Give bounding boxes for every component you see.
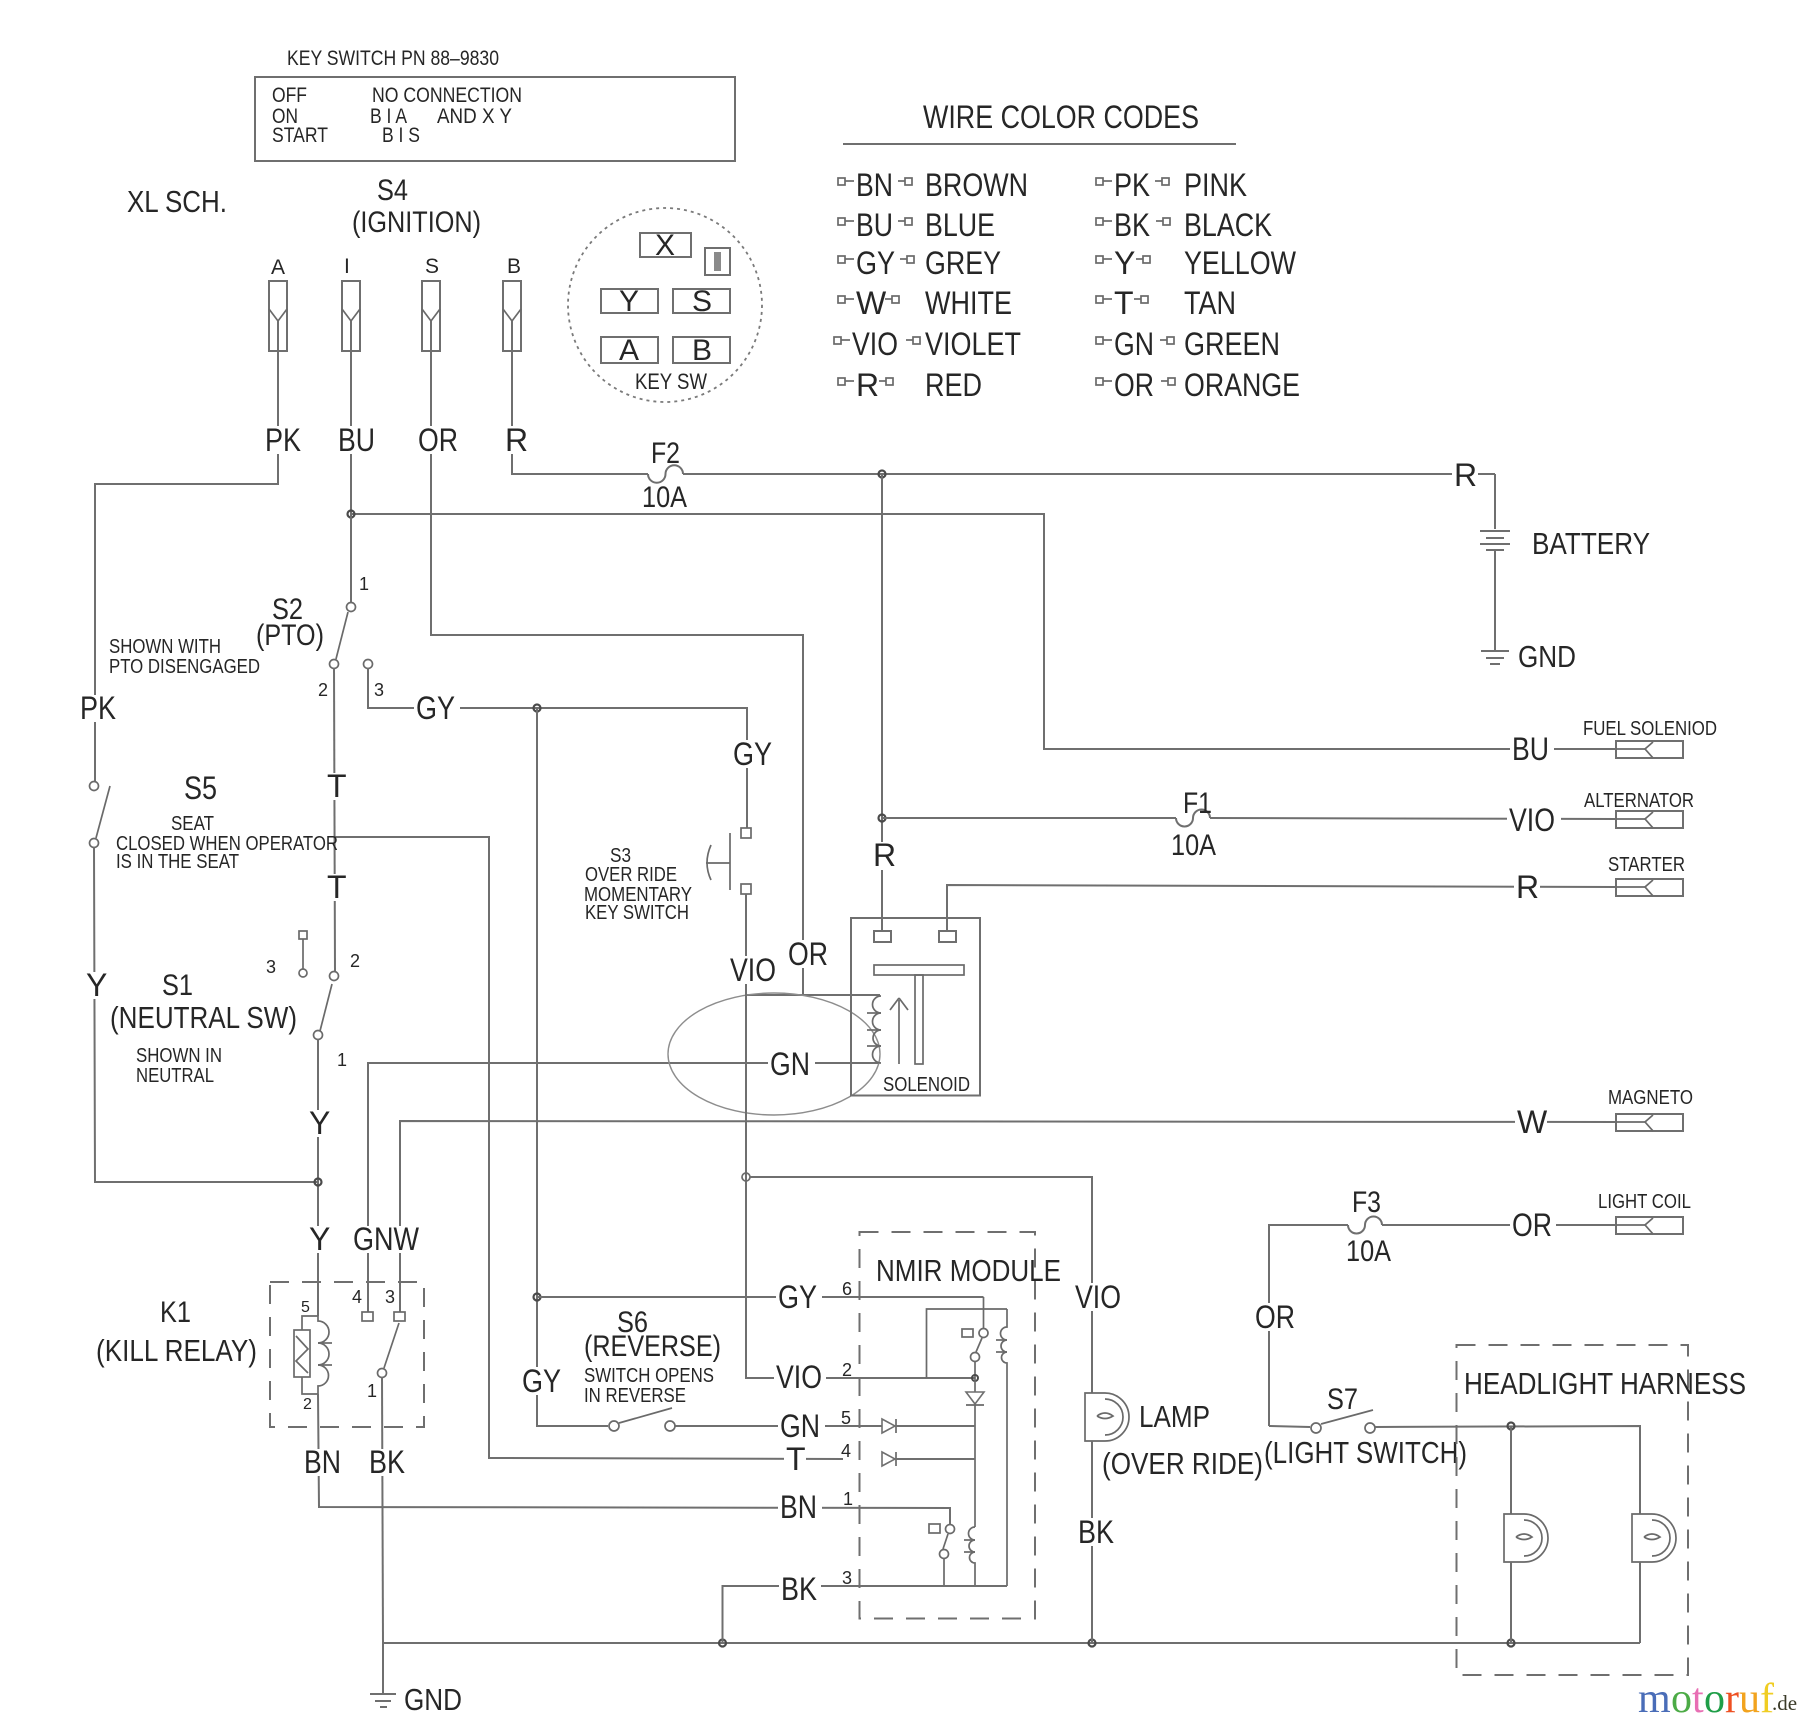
- svg-text:BLUE: BLUE: [925, 207, 995, 243]
- connector pin S of S4: [422, 255, 440, 351]
- wire to fuse F1: [882, 817, 1176, 819]
- svg-text:(NEUTRAL SW): (NEUTRAL SW): [110, 1000, 297, 1035]
- svg-text:BN: BN: [780, 1489, 817, 1525]
- svg-text:BU: BU: [1512, 731, 1549, 767]
- svg-text:GY: GY: [733, 736, 772, 772]
- wire label BK NMIR pin3: [779, 1571, 821, 1607]
- connector terminal light coil: [1616, 1217, 1683, 1234]
- switch S6 arm: [619, 1408, 672, 1423]
- connector terminal fuel solenoid: [1616, 741, 1683, 758]
- svg-text:WIRE COLOR CODES: WIRE COLOR CODES: [923, 99, 1199, 135]
- svg-text:NEUTRAL: NEUTRAL: [136, 1065, 214, 1087]
- legend row VIO VIOLET: [834, 326, 1021, 362]
- svg-text:S4: S4: [377, 174, 408, 207]
- wire T NMIR pin 4 segment: [896, 1458, 975, 1460]
- node VIO lamp junction: [742, 1173, 750, 1181]
- svg-text:LIGHT COIL: LIGHT COIL: [1598, 1191, 1691, 1213]
- svg-text:OFF: OFF: [272, 84, 307, 107]
- wire label Y at K1: [308, 1221, 330, 1257]
- svg-text:o: o: [1671, 1676, 1692, 1722]
- wire label BN at K1: [303, 1444, 345, 1480]
- wire label R top: [503, 422, 528, 458]
- legend row W WHITE: [838, 285, 1012, 321]
- wire label BK at K1: [368, 1444, 410, 1480]
- relay K1 switch arm: [384, 1323, 399, 1368]
- svg-text:A: A: [271, 256, 285, 279]
- switch S7 arm: [1321, 1410, 1373, 1424]
- NMIR upper relay arm: [976, 1338, 982, 1352]
- relay K1 switch pin labels: [352, 1287, 395, 1401]
- svg-text:(IGNITION): (IGNITION): [352, 206, 481, 239]
- wire label T NMIR pin4: [784, 1441, 806, 1477]
- svg-text:Y: Y: [309, 1221, 330, 1257]
- connector pin I of S4: [342, 255, 360, 351]
- svg-text:GY: GY: [416, 690, 455, 726]
- switch S2 labels: [256, 574, 384, 700]
- NMIR lower coil ticks: [964, 1540, 975, 1552]
- NMIR upper coil ticks: [996, 1340, 1007, 1352]
- wire left headlight to bus: [1510, 1562, 1512, 1643]
- switch S1 pin 3 terminal: [299, 931, 307, 977]
- svg-text:BN: BN: [304, 1444, 341, 1480]
- svg-text:XL SCH.: XL SCH.: [127, 184, 227, 219]
- svg-text:GREY: GREY: [925, 245, 1001, 281]
- wire W magneto to kill relay: [400, 1121, 1616, 1312]
- switch S6 right contact: [665, 1421, 675, 1431]
- svg-text:OR: OR: [788, 936, 828, 972]
- svg-text:VIO: VIO: [776, 1359, 822, 1395]
- wire label R starter: [1514, 869, 1540, 905]
- solenoid terminal 2: [939, 931, 956, 942]
- wire OR to light coil: [1382, 1224, 1616, 1226]
- svg-text:S: S: [425, 255, 439, 278]
- svg-text:IS IN THE SEAT: IS IN THE SEAT: [116, 851, 239, 873]
- legend row R RED: [838, 367, 982, 403]
- switch S7 labels: [1264, 1383, 1467, 1470]
- wire VIO NMIR pin 2: [859, 1377, 975, 1379]
- wire label T lower: [326, 869, 347, 905]
- legend row BU BLUE: [838, 207, 995, 243]
- solenoid box: [851, 918, 980, 1096]
- NMIR lower relay moving contact: [946, 1525, 955, 1534]
- wire right headlight to bus: [1639, 1562, 1641, 1643]
- solenoid coil: [873, 996, 882, 1063]
- switch S6 left contact: [609, 1421, 619, 1431]
- key switch terminal B: [673, 337, 730, 363]
- wire BK NMIR pin 3: [723, 1586, 1008, 1643]
- svg-text:X: X: [655, 229, 675, 262]
- svg-text:S5: S5: [184, 770, 217, 806]
- lamp over ride symbol: [1085, 1393, 1129, 1441]
- svg-text:VIO: VIO: [1509, 802, 1555, 838]
- svg-text:GN: GN: [1114, 326, 1154, 362]
- key switch PN table box: [255, 77, 735, 161]
- svg-text:NMIR MODULE: NMIR MODULE: [876, 1253, 1061, 1288]
- relay K1 moving contact: [378, 1369, 387, 1378]
- svg-text:1: 1: [337, 1050, 347, 1070]
- svg-text:T: T: [327, 768, 347, 804]
- wire label OR F3: [1253, 1299, 1299, 1335]
- svg-text:F1: F1: [1183, 787, 1212, 820]
- svg-text:1: 1: [359, 574, 369, 594]
- NMIR internal top link: [927, 1309, 1008, 1378]
- wire label W magneto: [1515, 1104, 1548, 1140]
- wire label OR light coil: [1510, 1207, 1556, 1243]
- svg-text:OR: OR: [418, 422, 458, 458]
- wire BU from S4 pin I to fuel solenoid: [351, 321, 1616, 749]
- diode at NMIR pin 5: [882, 1419, 896, 1433]
- node headlight junction: [1508, 1423, 1515, 1430]
- wire T from S2 pin 2 to S1 pin 2: [334, 668, 335, 972]
- svg-text:IN REVERSE: IN REVERSE: [584, 1385, 686, 1407]
- svg-text:S1: S1: [162, 969, 193, 1002]
- svg-text:5: 5: [301, 1299, 310, 1316]
- relay K1 pin 4 terminal: [362, 1312, 373, 1321]
- key switch terminal I: [705, 248, 730, 275]
- NMIR lower relay pivot lead: [943, 1559, 945, 1586]
- svg-text:GREEN: GREEN: [1184, 326, 1280, 362]
- svg-text:R: R: [505, 422, 528, 458]
- NMIR lower relay pivot contact: [940, 1550, 949, 1559]
- headlight harness box: [1457, 1345, 1689, 1675]
- svg-text:10A: 10A: [642, 481, 687, 514]
- svg-text:SHOWN WITH: SHOWN WITH: [109, 636, 221, 658]
- ground bus: [383, 1642, 1640, 1644]
- legend row GN GREEN: [1096, 326, 1280, 362]
- switch S5 labels: [116, 770, 338, 873]
- relay K1 labels: [96, 1296, 257, 1368]
- svg-text:PK: PK: [1114, 167, 1150, 203]
- NMIR lower coil: [969, 1527, 976, 1586]
- battery symbol: [1480, 474, 1510, 650]
- node F1 tap junction: [879, 815, 886, 822]
- node ground bus headlight junction: [1508, 1640, 1515, 1647]
- svg-text:PK: PK: [80, 690, 116, 726]
- svg-text:BK: BK: [1078, 1514, 1114, 1550]
- wire BK lamp to ground: [1091, 1441, 1093, 1643]
- wire label GY NMIR pin6: [776, 1279, 822, 1315]
- legend row PK PINK: [1096, 167, 1247, 203]
- svg-text:SEAT: SEAT: [171, 813, 214, 835]
- wire R after F2: [683, 473, 1495, 475]
- wire label Y mid: [308, 1105, 330, 1141]
- svg-text:BU: BU: [338, 422, 375, 458]
- svg-text:Y: Y: [619, 285, 639, 318]
- switch S6 labels: [584, 1306, 721, 1407]
- wire VIO OR link: [747, 994, 880, 996]
- node Y junction: [315, 1179, 322, 1186]
- svg-text:u: u: [1739, 1676, 1760, 1722]
- svg-text:VIO: VIO: [730, 952, 776, 988]
- svg-text:KEY SWITCH PN 88–9830: KEY SWITCH PN 88–9830: [287, 47, 499, 70]
- key switch face circle: [568, 208, 762, 402]
- svg-text:SWITCH OPENS: SWITCH OPENS: [584, 1365, 714, 1387]
- switch S1 pin 2 contact: [330, 972, 339, 981]
- wire label Y left: [85, 967, 107, 1003]
- wire VIO to alternator: [1210, 818, 1616, 819]
- wire label T upper: [326, 768, 347, 804]
- svg-text:t: t: [1692, 1676, 1704, 1722]
- wire GY down to NMIR pin 6 and S6: [537, 708, 608, 1426]
- solenoid coil ticks: [867, 1013, 881, 1046]
- NMIR upper coil: [1001, 1309, 1008, 1586]
- wire label GN solenoid: [768, 1046, 815, 1082]
- switch S5 top contact: [90, 782, 99, 791]
- wire label GY S6: [520, 1363, 566, 1399]
- wire label OR middle: [786, 936, 832, 972]
- wire label BN NMIR pin1: [778, 1489, 822, 1525]
- svg-text:WHITE: WHITE: [925, 285, 1012, 321]
- node GY junction: [534, 705, 541, 712]
- node GY junction NMIR pin6: [534, 1294, 541, 1301]
- svg-text:B: B: [692, 334, 712, 367]
- svg-text:GY: GY: [522, 1363, 561, 1399]
- svg-text:KEY SWITCH: KEY SWITCH: [585, 902, 689, 924]
- switch S1 labels: [110, 951, 360, 1087]
- wire label VIO alternator: [1507, 802, 1561, 838]
- switch S2 arm: [336, 612, 348, 659]
- svg-text:10A: 10A: [1171, 829, 1216, 862]
- solenoid plunger stem: [915, 975, 923, 1064]
- switch S2 pin 2 contact: [330, 660, 339, 669]
- wire BU drop to S2 pin 1: [350, 514, 352, 603]
- svg-text:LAMP: LAMP: [1139, 1399, 1210, 1434]
- svg-text:I: I: [344, 255, 350, 278]
- svg-text:SHOWN IN: SHOWN IN: [136, 1045, 222, 1067]
- wire BN from K1 coil to NMIR pin 1: [318, 1394, 950, 1524]
- watermark motoruf.de: [1638, 1676, 1797, 1722]
- wire label PK left: [80, 690, 116, 726]
- legend row Y YELLOW: [1096, 245, 1297, 281]
- NMIR down diode: [966, 1378, 984, 1426]
- switch S3 bottom terminal: [741, 884, 751, 894]
- NMIR pin numbers: [841, 1279, 853, 1588]
- svg-text:BROWN: BROWN: [925, 167, 1028, 203]
- solenoid terminal 1: [874, 931, 891, 942]
- svg-text:S: S: [692, 285, 712, 318]
- svg-text:r: r: [1725, 1676, 1739, 1722]
- fuse F1: [1176, 810, 1210, 827]
- key switch terminal A: [601, 337, 658, 363]
- switch S1 arm: [320, 984, 332, 1031]
- svg-text:6: 6: [842, 1279, 852, 1299]
- svg-text:R: R: [1516, 869, 1539, 905]
- NMIR upper relay fixed contact: [962, 1329, 973, 1337]
- switch S2 pin 1 contact: [347, 603, 356, 612]
- svg-text:(KILL RELAY): (KILL RELAY): [96, 1333, 257, 1368]
- svg-text:(OVER RIDE): (OVER RIDE): [1102, 1446, 1263, 1481]
- node NMIR pin2 junction: [972, 1375, 978, 1381]
- wire T branch to NMIR pin 4: [335, 837, 843, 1459]
- svg-text:W: W: [1517, 1104, 1548, 1140]
- wire S7 to headlights: [1375, 1426, 1640, 1514]
- wire VIO to lamp: [750, 1177, 1092, 1393]
- node BU junction: [348, 511, 355, 518]
- legend row BK BLACK: [1096, 207, 1272, 243]
- key switch terminal S: [673, 289, 730, 313]
- wire VIO from S3 down: [746, 894, 859, 1378]
- svg-text:4: 4: [352, 1287, 362, 1307]
- solenoid plunger T bar: [874, 965, 964, 975]
- svg-text:Y: Y: [86, 967, 107, 1003]
- svg-text:OVER RIDE: OVER RIDE: [585, 864, 677, 886]
- svg-text:T: T: [1114, 285, 1134, 321]
- wire GY from S2 pin 3: [368, 668, 747, 828]
- legend row OR ORANGE: [1096, 367, 1300, 403]
- svg-text:GNW: GNW: [353, 1221, 420, 1257]
- wire Y from S1 pin 1 to K1 coil: [317, 1039, 319, 1316]
- ground symbol main: [370, 1643, 396, 1707]
- NMIR upper relay pivot contact: [971, 1353, 980, 1362]
- connector terminal magneto: [1616, 1114, 1683, 1131]
- key switch terminal Y: [601, 289, 658, 313]
- NMIR upper relay pivot lead: [974, 1362, 976, 1378]
- svg-text:(LIGHT SWITCH): (LIGHT SWITCH): [1264, 1435, 1467, 1470]
- svg-text:1: 1: [843, 1489, 853, 1509]
- svg-text:BATTERY: BATTERY: [1532, 526, 1650, 561]
- wire R from S4 pin B to battery: [512, 321, 648, 474]
- svg-text:FUEL SOLENIOD: FUEL SOLENIOD: [1583, 718, 1717, 740]
- svg-text:ORANGE: ORANGE: [1184, 367, 1300, 403]
- key switch terminal X: [640, 233, 691, 257]
- svg-text:2: 2: [350, 951, 360, 971]
- svg-text:F3: F3: [1352, 1186, 1381, 1219]
- wire GN from solenoid coil to K1 pin 4: [368, 1063, 879, 1312]
- svg-text:RED: RED: [925, 367, 982, 403]
- switch S7 left lead: [1269, 1426, 1310, 1427]
- wire GY NMIR pin 6: [537, 1296, 984, 1298]
- node R junction at solenoid feed: [879, 471, 886, 478]
- switch S2 pin 3 contact: [364, 660, 373, 669]
- svg-text:HEADLIGHT HARNESS: HEADLIGHT HARNESS: [1464, 1366, 1746, 1401]
- wire label BU top: [336, 422, 378, 458]
- wire R starter from solenoid terminal 2: [947, 885, 1616, 932]
- svg-text:VIO: VIO: [1075, 1279, 1121, 1315]
- svg-text:K1: K1: [160, 1296, 191, 1329]
- relay K1 box: [270, 1282, 424, 1427]
- wire label GN NMIR pin5: [778, 1408, 825, 1444]
- svg-text:START: START: [272, 124, 328, 147]
- wire OR from S4 pin S: [431, 321, 803, 994]
- ground symbol battery: [1481, 651, 1509, 664]
- svg-text:T: T: [786, 1441, 806, 1477]
- svg-text:GND: GND: [1518, 639, 1576, 674]
- svg-text:GN: GN: [770, 1046, 810, 1082]
- wire label BK lamp: [1076, 1514, 1118, 1550]
- svg-text:MAGNETO: MAGNETO: [1608, 1087, 1693, 1109]
- wire label VIO at S3: [729, 952, 781, 988]
- svg-text:ALTERNATOR: ALTERNATOR: [1584, 790, 1694, 812]
- svg-text:NO CONNECTION: NO CONNECTION: [372, 84, 522, 107]
- switch S7 left contact: [1311, 1423, 1321, 1433]
- diode at NMIR pin 4: [882, 1452, 896, 1466]
- relay K1 pin 3 terminal: [394, 1312, 405, 1321]
- wire BK from K1 to ground bus: [382, 1377, 383, 1643]
- svg-text:10A: 10A: [1346, 1235, 1391, 1268]
- svg-text:GN: GN: [780, 1408, 820, 1444]
- svg-text:STARTER: STARTER: [1608, 854, 1685, 876]
- NMIR lower relay arm: [943, 1534, 948, 1549]
- connector pin B of S4: [503, 255, 521, 351]
- svg-text:2: 2: [318, 680, 328, 700]
- svg-text:.de: .de: [1772, 1691, 1797, 1715]
- fuse F3: [1348, 1217, 1382, 1234]
- svg-text:A: A: [619, 334, 639, 367]
- node ground bus BK junction: [719, 1640, 726, 1647]
- wire label VIO lamp: [1073, 1279, 1125, 1315]
- svg-text:R: R: [1454, 457, 1477, 493]
- switch S7 right contact: [1365, 1423, 1375, 1433]
- wire label PK top: [264, 422, 304, 458]
- legend row BN BROWN: [838, 167, 1028, 203]
- solenoid arrow: [890, 998, 908, 1064]
- NMIR upper relay moving contact: [979, 1329, 988, 1338]
- switch S3 top terminal: [741, 828, 751, 838]
- svg-text:2: 2: [842, 1360, 852, 1380]
- svg-text:o: o: [1704, 1676, 1725, 1722]
- svg-text:AND X Y: AND X Y: [437, 105, 512, 128]
- wire label R battery: [1452, 457, 1478, 493]
- svg-text:BLACK: BLACK: [1184, 207, 1272, 243]
- relay K1 coil pin labels: [301, 1299, 312, 1413]
- wire R down to solenoid terminal 1: [881, 474, 883, 932]
- NMIR diode column: [974, 1426, 976, 1527]
- svg-text:B: B: [507, 255, 521, 278]
- svg-text:SOLENOID: SOLENOID: [883, 1074, 970, 1096]
- svg-text:KEY SW: KEY SW: [635, 369, 707, 394]
- wire label GNW: [352, 1221, 420, 1257]
- svg-text:VIOLET: VIOLET: [925, 326, 1021, 362]
- svg-text:1: 1: [367, 1381, 377, 1401]
- fuse F2: [648, 465, 683, 482]
- svg-text:W: W: [856, 285, 887, 321]
- svg-text:B I S: B I S: [382, 124, 420, 147]
- key switch PN table rows: [272, 84, 522, 147]
- NMIR module box: [860, 1232, 1036, 1619]
- svg-text:2: 2: [303, 1396, 312, 1413]
- svg-text:T: T: [327, 869, 347, 905]
- NMIR upper relay feed: [983, 1297, 985, 1329]
- svg-text:3: 3: [385, 1287, 395, 1307]
- switch S5 bottom contact: [90, 839, 99, 848]
- svg-text:OR: OR: [1512, 1207, 1552, 1243]
- svg-text:BK: BK: [1114, 207, 1150, 243]
- wire label GY at S2: [414, 690, 460, 726]
- svg-text:YELLOW: YELLOW: [1184, 245, 1297, 281]
- wire color codes rule: [843, 143, 1236, 145]
- svg-text:3: 3: [266, 957, 276, 977]
- wire label R solenoid: [871, 837, 896, 873]
- wire label OR top: [416, 422, 462, 458]
- svg-text:R: R: [873, 837, 896, 873]
- wire Y from S5 to S1 output: [94, 847, 318, 1182]
- connector terminal alternator: [1616, 811, 1683, 828]
- svg-text:Y: Y: [1114, 245, 1135, 281]
- legend row GY GREY: [838, 245, 1001, 281]
- connector terminal starter: [1616, 879, 1683, 896]
- switch S3 plunger: [706, 833, 730, 890]
- svg-text:TAN: TAN: [1184, 285, 1236, 321]
- svg-text:Y: Y: [309, 1105, 330, 1141]
- svg-text:GY: GY: [856, 245, 895, 281]
- svg-text:R: R: [856, 367, 879, 403]
- svg-text:OR: OR: [1114, 367, 1154, 403]
- svg-text:PK: PK: [265, 422, 301, 458]
- wire PK from S4 pin A: [95, 321, 278, 782]
- switch S5 arm: [96, 786, 110, 838]
- switch S1 pin 1 contact: [314, 1031, 323, 1040]
- svg-text:4: 4: [841, 1441, 851, 1461]
